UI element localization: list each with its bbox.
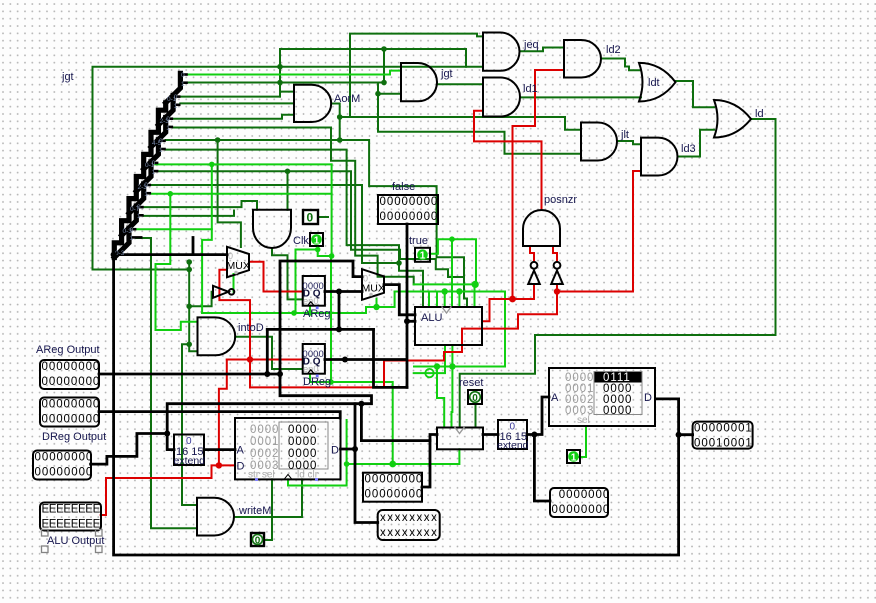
svg-text:00000000: 00000000 [552,504,611,516]
svg-text:ld2: ld2 [606,44,621,56]
svg-text:0: 0 [472,393,478,404]
svg-text:DReg Output: DReg Output [42,431,106,443]
svg-text:1: 1 [137,213,141,220]
svg-text:0-3: 0-3 [115,250,125,257]
wire bus thick T near cascade [192,238,195,255]
svg-text:MUX: MUX [362,283,385,295]
splitter S5 [136,162,151,191]
wire splitter row A2 to AorM.b [173,115,294,119]
constant 0 for RAM1 sel [251,533,264,547]
wire bus instruction down left side and bottom frame to ROM [114,255,679,555]
wire bus probe1 line y=374 [99,373,280,376]
wire bus AReg Q down to y=329.4 bus [338,292,341,330]
ram RAM1 (memory 4x16) [235,418,341,481]
wire bus ROM D to probe [679,433,693,436]
svg-text:4-5: 4-5 [152,140,162,147]
junction dots red [216,288,561,468]
wire row B7 down x=151 to writeM.b [136,238,197,528]
svg-text:00000000: 00000000 [380,196,439,208]
wire RAM2 sel from constant 1 [579,426,586,457]
svg-text:1: 1 [571,453,577,464]
wire bus instruction main: dot(113.6,254.6) right to MUX1.in1 [114,253,227,256]
constant reset 0 [468,390,482,404]
wire row B4 long to x=347.3 down to clock rail [158,171,464,277]
splitter S1 [166,73,181,102]
or-gate ld [714,100,751,138]
wire bus PC net drop to probe [422,441,430,487]
svg-text:00000000: 00000000 [42,361,101,373]
probe DReg Output value [33,451,93,480]
svg-text:AorM: AorM [334,93,360,105]
wire red inverter1 bottom [533,284,535,299]
probe ROM output value [693,422,753,450]
wire bus extend1 input drop [167,434,174,450]
svg-text:true: true [409,235,428,247]
wire ALU control rail1 y=284.4 [414,283,475,285]
svg-text:jeq: jeq [523,39,539,51]
mux MUX1 [227,247,249,277]
svg-text:0-3: 0-3 [123,228,133,235]
svg-text:ALU Output: ALU Output [47,535,104,547]
svg-text:0000000: 0000000 [559,489,610,501]
wire MUX2 select stub [377,292,395,308]
wire red from dot down-left loop [250,292,557,388]
wire red from dot to ld3.b via x=633 [557,171,641,292]
wire red vertical x=228 [219,360,227,466]
svg-text:00000000: 00000000 [35,467,94,479]
svg-text:writeM: writeM [238,505,271,517]
wire clock rail under DReg [310,375,393,464]
wire writeM output to RAM1 ld pin [234,479,302,517]
wire intoD output to DReg.en [235,337,303,369]
svg-text:0-7: 0-7 [130,206,140,213]
svg-text:0000: 0000 [288,448,317,460]
wire intoD.b branch down to writeM.a [182,344,197,505]
wire row B6 short [144,211,234,216]
wire bus AReg-out riser x=280 from probe1 line [280,261,362,374]
wire bus extend2 out to RAM2 A [527,397,549,435]
svg-text:1: 1 [181,81,185,88]
wire bus PC net: dot up to y=403.7 rail [167,374,371,434]
svg-text:jlt: jlt [620,129,629,141]
wire ld3 output to ld.b [678,130,715,157]
wire red RAM1.D stub [219,464,235,466]
svg-text:intoD: intoD [238,322,264,334]
wire jeq.a feed line y=33.6 from vertical x=350 [350,34,483,117]
register AReg [303,276,325,309]
svg-text:0-1: 0-1 [145,162,155,169]
wire red vertical x=250 MUX1.in2 riser [219,270,250,388]
wire bus AReg Q to MUX2.in2 [325,290,362,293]
splitter S2 [158,96,173,125]
svg-text:1: 1 [130,235,134,242]
wire south AND input2 drop from A5 [287,171,289,210]
wire clock rail y=464 to PC and RAM1 [288,420,347,486]
svg-text:0000: 0000 [603,405,632,417]
svg-text:1: 1 [144,191,148,198]
wire AReg clock rail y=313 [202,307,376,313]
wire intoD.b from dot [189,344,197,351]
wire red vertical x=512.5 to posnzr inverter junction [513,126,535,299]
svg-text:0000: 0000 [288,436,317,448]
probe xxxxxxxx [378,510,440,540]
wire bus probe3 staircase to extend1 [91,434,168,465]
wire ld output long loop to PC load pin [460,119,776,428]
and-gate AorM [294,85,331,122]
wire row B5 bright staircase to intoD.a [151,194,198,330]
wire Clk constant distribution [296,246,318,313]
and-gate jeq [483,33,520,71]
svg-text:xxxxxxxx: xxxxxxxx [380,527,438,539]
and-gate posnzr facing north [523,210,560,246]
svg-text:ld1: ld1 [523,83,538,95]
wire bus PC output to extend2 [483,433,498,436]
wire ldt output to ld.a [676,81,715,107]
wire red to ALU Output probe [101,465,219,515]
and-gate ld1 [483,78,520,117]
svg-text:A: A [551,392,559,404]
svg-text:0002: 0002 [250,448,279,460]
wire ld1 output to ldt.b [520,96,641,98]
wire red jog above ALU right [490,298,513,300]
wire bus x=373.5 down to y=387.4 [374,329,408,387]
svg-text:00000000: 00000000 [42,399,101,411]
svg-text:00000000: 00000000 [365,489,424,501]
svg-text:ld3: ld3 [681,143,696,155]
wire vertical x=280 top (dots at 66.9,82.5) [279,49,281,97]
wire row A4 bright long to x=331.6 [155,163,331,165]
wire true constant to ALU control rail [431,239,476,284]
svg-text:0: 0 [181,72,185,79]
and-gate intoD [198,317,236,355]
wire vertical x=384 (dots 49, 82.5) [383,49,385,83]
svg-text:2-3: 2-3 [138,184,148,191]
wire row A6 to south AND input 1 [144,201,257,210]
wire row A3 staircase to MUX1 top [218,140,241,247]
svg-text:DReg: DReg [303,376,331,388]
wire AReg clock caret stub [309,307,311,313]
svg-text:AReg Output: AReg Output [36,344,100,356]
svg-text:EEEEEEEE: EEEEEEEE [42,504,101,516]
wire y=49 line to jeq.b jog [280,49,466,67]
svg-text:1: 1 [314,236,320,247]
svg-text:2-3: 2-3 [160,118,170,125]
svg-text:0: 0 [307,211,314,225]
probe second (PC value) [40,398,100,427]
and-gate ld3 [641,138,677,176]
probe mid bottom [550,488,610,517]
svg-text:0000: 0000 [250,424,279,436]
wire splitter row B1 to AorM middle input [180,102,294,104]
wire red posnzr output up to ld1.b [474,111,542,210]
svg-text:sel: sel [577,415,590,426]
wire bus riser x=267.3 down to probe1 line [266,329,269,374]
wire bus probe2 line y=411.6 to RAM1 corner [99,412,340,418]
register DReg [303,344,325,377]
wire ALU bottom bright stub x=452 dot y=366 [451,345,453,367]
splitter S6 [129,184,144,213]
wire splitter row B0 y=82.5 [187,82,385,84]
wire row A5 long y=185 down x=362 [151,185,399,263]
wire x=505 down to bright elbow y=366 [414,292,505,367]
wire red ALU right output [482,299,490,321]
svg-text:ldt: ldt [648,77,660,89]
svg-text:ld: ld [755,108,764,120]
svg-text:extend: extend [174,455,206,467]
svg-text:posnzr: posnzr [544,194,577,206]
wire row A7 bright [136,228,212,230]
junction dots black [111,252,682,452]
wire AorM.a drop from B0 row [280,83,294,92]
wire reset constant to PC reset pin [475,404,477,428]
svg-text:00000000: 00000000 [35,452,94,464]
wire clock vertical upper part x=331.6 [331,164,333,256]
wire red posnzr input jogs from inverter bubbles [530,246,534,261]
wire staircase S_a to ALU pin x=467 [166,140,467,307]
splitter bit labels tiny [115,72,185,257]
svg-text:0000: 0000 [288,424,317,436]
not-gate posnzr inverter 2 facing north [551,271,563,285]
wire staircase S_c from row B3 to ALU pin x=423 [166,150,423,307]
svg-text:jgt: jgt [61,71,74,83]
svg-text:false: false [392,181,415,193]
and-gate writeM [197,498,234,536]
wire red ld2.b feed [513,70,565,126]
and-gate jgt [401,63,437,101]
svg-text:D: D [237,461,245,473]
wire south AND output to AReg.en [272,248,303,299]
wire bus PC net drop to PC input [361,404,437,441]
wire dark column x=189 (dots 269.5,306,344) [188,262,190,345]
wire bus DReg Q to ALU.y riser [325,224,407,387]
constant true 1 [415,248,430,262]
wire ALU zr output down x=445 to PC pin [414,345,445,373]
wire bus ALU.y stub [407,320,415,323]
wire ALU control rail2 y=291.5 [395,291,505,293]
svg-text:1: 1 [174,103,178,110]
wire const0 to RAM1 sel pin [264,479,272,540]
wire bus RAM1 D out with branch down to xxxxxxxx probe [341,448,356,451]
bit extender 1 [174,435,206,468]
junction dots dark green [186,46,401,347]
svg-text:0-1: 0-1 [167,96,177,103]
wire AorM output net: down x=339.7, jlt.a line y=117 [331,104,340,141]
wire staircase S_b from row B2 [173,128,414,285]
wire jlt.b line y=131.8 via x=378 and x=504.5 [378,94,581,154]
svg-text:reset: reset [459,377,483,389]
svg-text:ALU: ALU [421,312,442,324]
splitter cascade (8 bus splitters) [114,73,186,257]
svg-text:00000000: 00000000 [42,414,101,426]
wire red MUX1 output to AReg.D [249,262,303,292]
svg-text:D: D [331,445,339,457]
svg-text:jgt: jgt [440,68,453,80]
wire bus MUX2 output to ALU.x [384,285,415,315]
svg-text:MUX: MUX [227,260,250,272]
wire inverter output to MUX1 select [233,274,235,292]
svg-text:00000000: 00000000 [380,211,439,223]
probe AReg Output value [40,360,100,389]
wire red inverter2 bottom to dot [556,284,558,292]
ram RAM2 (ROM with instruction 0111) [549,368,655,426]
splitter S3 [151,118,166,147]
svg-text:xxxxxxxx: xxxxxxxx [380,512,438,524]
ALU box [415,307,482,345]
wire bus extend1 output to RAM1.A [204,448,235,451]
svg-text:1: 1 [152,169,156,176]
constant 0 box near Clk [303,210,318,225]
not-gate inverter before MUX1 select [213,286,229,298]
svg-text:0: 0 [255,536,261,547]
svg-text:EEEEEEEE: EEEEEEEE [42,519,101,531]
wire jlt output to ld3.a [617,141,641,144]
svg-text:00000000: 00000000 [365,474,424,486]
wire constant 0 stub near Clk [318,216,328,218]
wire left rail to dark column x=189 [93,269,190,271]
splitter S7 [122,206,137,235]
mux MUX2 [362,269,384,300]
svg-text:D: D [644,392,652,404]
svg-text:0001: 0001 [250,436,279,448]
svg-text:Clk: Clk [293,235,309,247]
wire inverter input feed [189,292,213,307]
clock Clk constant 1 [310,233,323,247]
and-gate jlt [581,123,617,161]
wire jeq output to ld2.a [520,48,565,52]
svg-text:1: 1 [166,125,170,132]
wire red DReg.D feed [227,359,303,361]
not-gate posnzr inverter 1 facing north [528,271,540,285]
wire splitter row A1 into x=280 column [180,96,280,98]
splitter S8 [114,228,129,257]
wire row A0 bright to jgt.a [188,71,401,75]
svg-text:1: 1 [159,147,163,154]
svg-text:A: A [237,445,245,457]
wire bus y=329.4 horizontal [267,328,373,331]
svg-text:1: 1 [420,251,426,262]
junction dots bright green [168,162,479,468]
wire jgt output to ld1.a [437,83,483,85]
splitter S4 [144,140,159,169]
wire ALU control drops to ALU top [428,292,430,308]
wire ld2 output to ldt.a [601,59,641,71]
probe false [378,195,438,224]
output pin circle on zr line [425,369,433,377]
splitter bus chain connecting inputs [114,103,165,258]
wire A4 branch down to AReg clock rail [202,164,212,313]
wire row B5 right arm [170,193,331,195]
and-gate ld2 [564,40,601,78]
svg-text:extend: extend [497,440,529,452]
svg-text:str sel: str sel [248,470,275,481]
counter PC [437,428,483,450]
or-gate ldt [639,63,676,102]
bit extender 2 [497,420,529,452]
wire net B0/jeq.b: long horizontal rail y=66.7 with left rail down x=92.5 [93,67,484,270]
wire jgt.b feed from B0-net jog x=378 [378,84,401,93]
probe ALU Output value (selected, error EEEE) [40,503,102,553]
wire bus extend2 out down to mid probe [534,435,550,502]
and-gate facing south near Clk [253,210,291,248]
constant sel 1 for RAM2 [567,450,580,464]
probe below RAM1 [363,473,423,502]
svg-text:00010001: 00010001 [694,438,753,450]
svg-text:00000001: 00000001 [694,423,753,435]
svg-text:00000000: 00000000 [42,376,101,388]
svg-text:AReg: AReg [303,308,331,320]
